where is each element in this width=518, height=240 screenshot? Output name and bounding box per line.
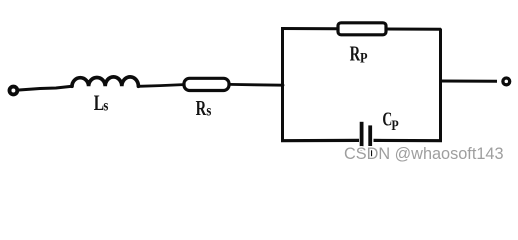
svg-text:CSDN @whaosoft143: CSDN @whaosoft143 bbox=[344, 145, 504, 163]
svg-text:L: L bbox=[94, 91, 104, 115]
wire (Rp to top-right corner) bbox=[386, 28, 441, 31]
svg-text:s: s bbox=[103, 97, 108, 115]
wire (top-left horizontal to Rp) bbox=[281, 27, 337, 30]
wire (right vertical side of parallel loop) bbox=[439, 29, 442, 142]
capacitor Cp plate left bbox=[360, 122, 364, 151]
wire (left vertical side of parallel loop) bbox=[281, 29, 284, 142]
svg-text:R: R bbox=[196, 96, 207, 119]
label Rp bbox=[350, 42, 368, 66]
wire (output branch to right terminal) bbox=[440, 80, 497, 83]
inductor Ls bbox=[72, 77, 138, 86]
label Ls bbox=[94, 91, 109, 115]
capacitor Cp plate right bbox=[368, 125, 372, 159]
svg-text:P: P bbox=[391, 117, 398, 134]
svg-text:P: P bbox=[360, 50, 368, 66]
wire (capacitor to bottom-right corner) bbox=[374, 139, 443, 143]
label Cp bbox=[382, 108, 398, 133]
terminal T2 (right output terminal) bbox=[503, 78, 510, 85]
wire (inductor to Rs) bbox=[138, 85, 183, 87]
wire (Rs to parallel network node) bbox=[229, 83, 283, 87]
wire (left terminal to inductor) bbox=[19, 86, 72, 90]
resistor Rp bbox=[338, 23, 386, 35]
wire (bottom-left horizontal to capacitor) bbox=[281, 139, 359, 143]
label Rs bbox=[196, 96, 212, 120]
terminal T1 (left input terminal) bbox=[10, 87, 18, 95]
svg-text:s: s bbox=[206, 102, 211, 120]
resistor Rs bbox=[184, 78, 229, 90]
